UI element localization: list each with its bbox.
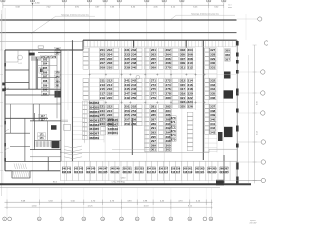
svg-text:план: план	[228, 7, 232, 9]
svg-text:11: 11	[61, 219, 63, 221]
svg-text:10.18: 10.18	[143, 205, 149, 207]
svg-text:285: 285	[43, 66, 48, 70]
svg-text:В3.5: В3.5	[53, 182, 57, 184]
svg-text:314 315: 314 315	[159, 170, 169, 174]
svg-text:250: 250	[131, 96, 136, 100]
svg-text:306 307: 306 307	[110, 170, 120, 174]
svg-text:269: 269	[151, 65, 156, 69]
svg-text:259: 259	[125, 122, 130, 126]
svg-text:239: 239	[125, 65, 130, 69]
svg-text:209: 209	[100, 65, 105, 69]
svg-text:12.25: 12.25	[87, 205, 93, 207]
svg-text:10: 10	[38, 219, 40, 221]
svg-text:СУЩ. ПРОЕЗД: СУЩ. ПРОЕЗД	[111, 182, 125, 184]
svg-text:300 301: 300 301	[74, 170, 84, 174]
svg-text:331: 331	[210, 65, 215, 69]
svg-text:18: 18	[189, 219, 191, 221]
svg-text:291: 291	[43, 92, 48, 96]
svg-text:312 313: 312 313	[147, 170, 157, 174]
svg-text:375: 375	[170, 138, 175, 142]
svg-text:14: 14	[120, 219, 122, 221]
svg-text:2019-АР: 2019-АР	[249, 222, 257, 225]
svg-text:171: 171	[40, 137, 45, 140]
svg-text:15: 15	[136, 219, 138, 221]
svg-text:287: 287	[43, 75, 48, 79]
svg-text:279: 279	[151, 96, 156, 100]
svg-text:324 325: 324 325	[219, 170, 229, 174]
svg-text:220: 220	[107, 96, 112, 100]
svg-text:280: 280	[166, 96, 171, 100]
svg-text:316 317: 316 317	[171, 170, 181, 174]
svg-text:301: 301	[151, 148, 156, 152]
svg-text:311: 311	[180, 65, 185, 69]
svg-text:16: 16	[152, 219, 154, 221]
svg-text:320 321: 320 321	[195, 170, 205, 174]
svg-text:302 303: 302 303	[86, 170, 96, 174]
svg-text:1.01: 1.01	[18, 63, 21, 65]
svg-text:219: 219	[100, 96, 105, 100]
svg-text:284: 284	[43, 62, 48, 66]
svg-text:343: 343	[210, 130, 215, 134]
svg-text:326: 326	[188, 104, 193, 108]
svg-text:302: 302	[166, 148, 171, 152]
svg-text:322 323: 322 323	[207, 170, 217, 174]
svg-text:12: 12	[83, 219, 85, 221]
svg-text:270: 270	[166, 65, 171, 69]
svg-text:13: 13	[102, 219, 104, 221]
svg-text:369: 369	[94, 136, 99, 140]
svg-text:310 311: 310 311	[135, 170, 145, 174]
svg-text:289: 289	[43, 83, 48, 87]
svg-text:283: 283	[43, 57, 48, 61]
svg-text:210: 210	[107, 65, 112, 69]
svg-text:290: 290	[43, 88, 48, 92]
svg-text:312: 312	[188, 65, 193, 69]
svg-text:286: 286	[43, 70, 48, 74]
svg-text:351: 351	[113, 131, 118, 135]
svg-text:288: 288	[43, 79, 48, 83]
svg-text:С350: С350	[121, 178, 126, 180]
svg-text:308 309: 308 309	[122, 170, 132, 174]
svg-text:6.54: 6.54	[257, 131, 259, 135]
svg-text:318 319: 318 319	[183, 170, 193, 174]
svg-text:249: 249	[125, 96, 130, 100]
svg-text:8.08: 8.08	[257, 101, 259, 105]
svg-text:278: 278	[55, 72, 60, 75]
svg-text:273: 273	[52, 56, 57, 59]
svg-text:-0.450: -0.450	[34, 2, 39, 4]
svg-text:357: 357	[225, 57, 230, 61]
svg-text:240: 240	[131, 65, 136, 69]
svg-text:304 305: 304 305	[98, 170, 108, 174]
svg-text:9: 9	[4, 219, 5, 221]
svg-text:276: 276	[55, 48, 60, 51]
svg-text:281: 281	[55, 85, 60, 88]
svg-text:1с: 1с	[137, 81, 139, 83]
svg-text:280: 280	[55, 80, 60, 83]
svg-text:325: 325	[180, 104, 185, 108]
svg-text:17: 17	[170, 219, 172, 221]
svg-text:336: 336	[210, 96, 215, 100]
svg-text:20: 20	[210, 219, 212, 221]
svg-text:298 299: 298 299	[62, 170, 72, 174]
svg-text:14.60: 14.60	[31, 205, 37, 207]
